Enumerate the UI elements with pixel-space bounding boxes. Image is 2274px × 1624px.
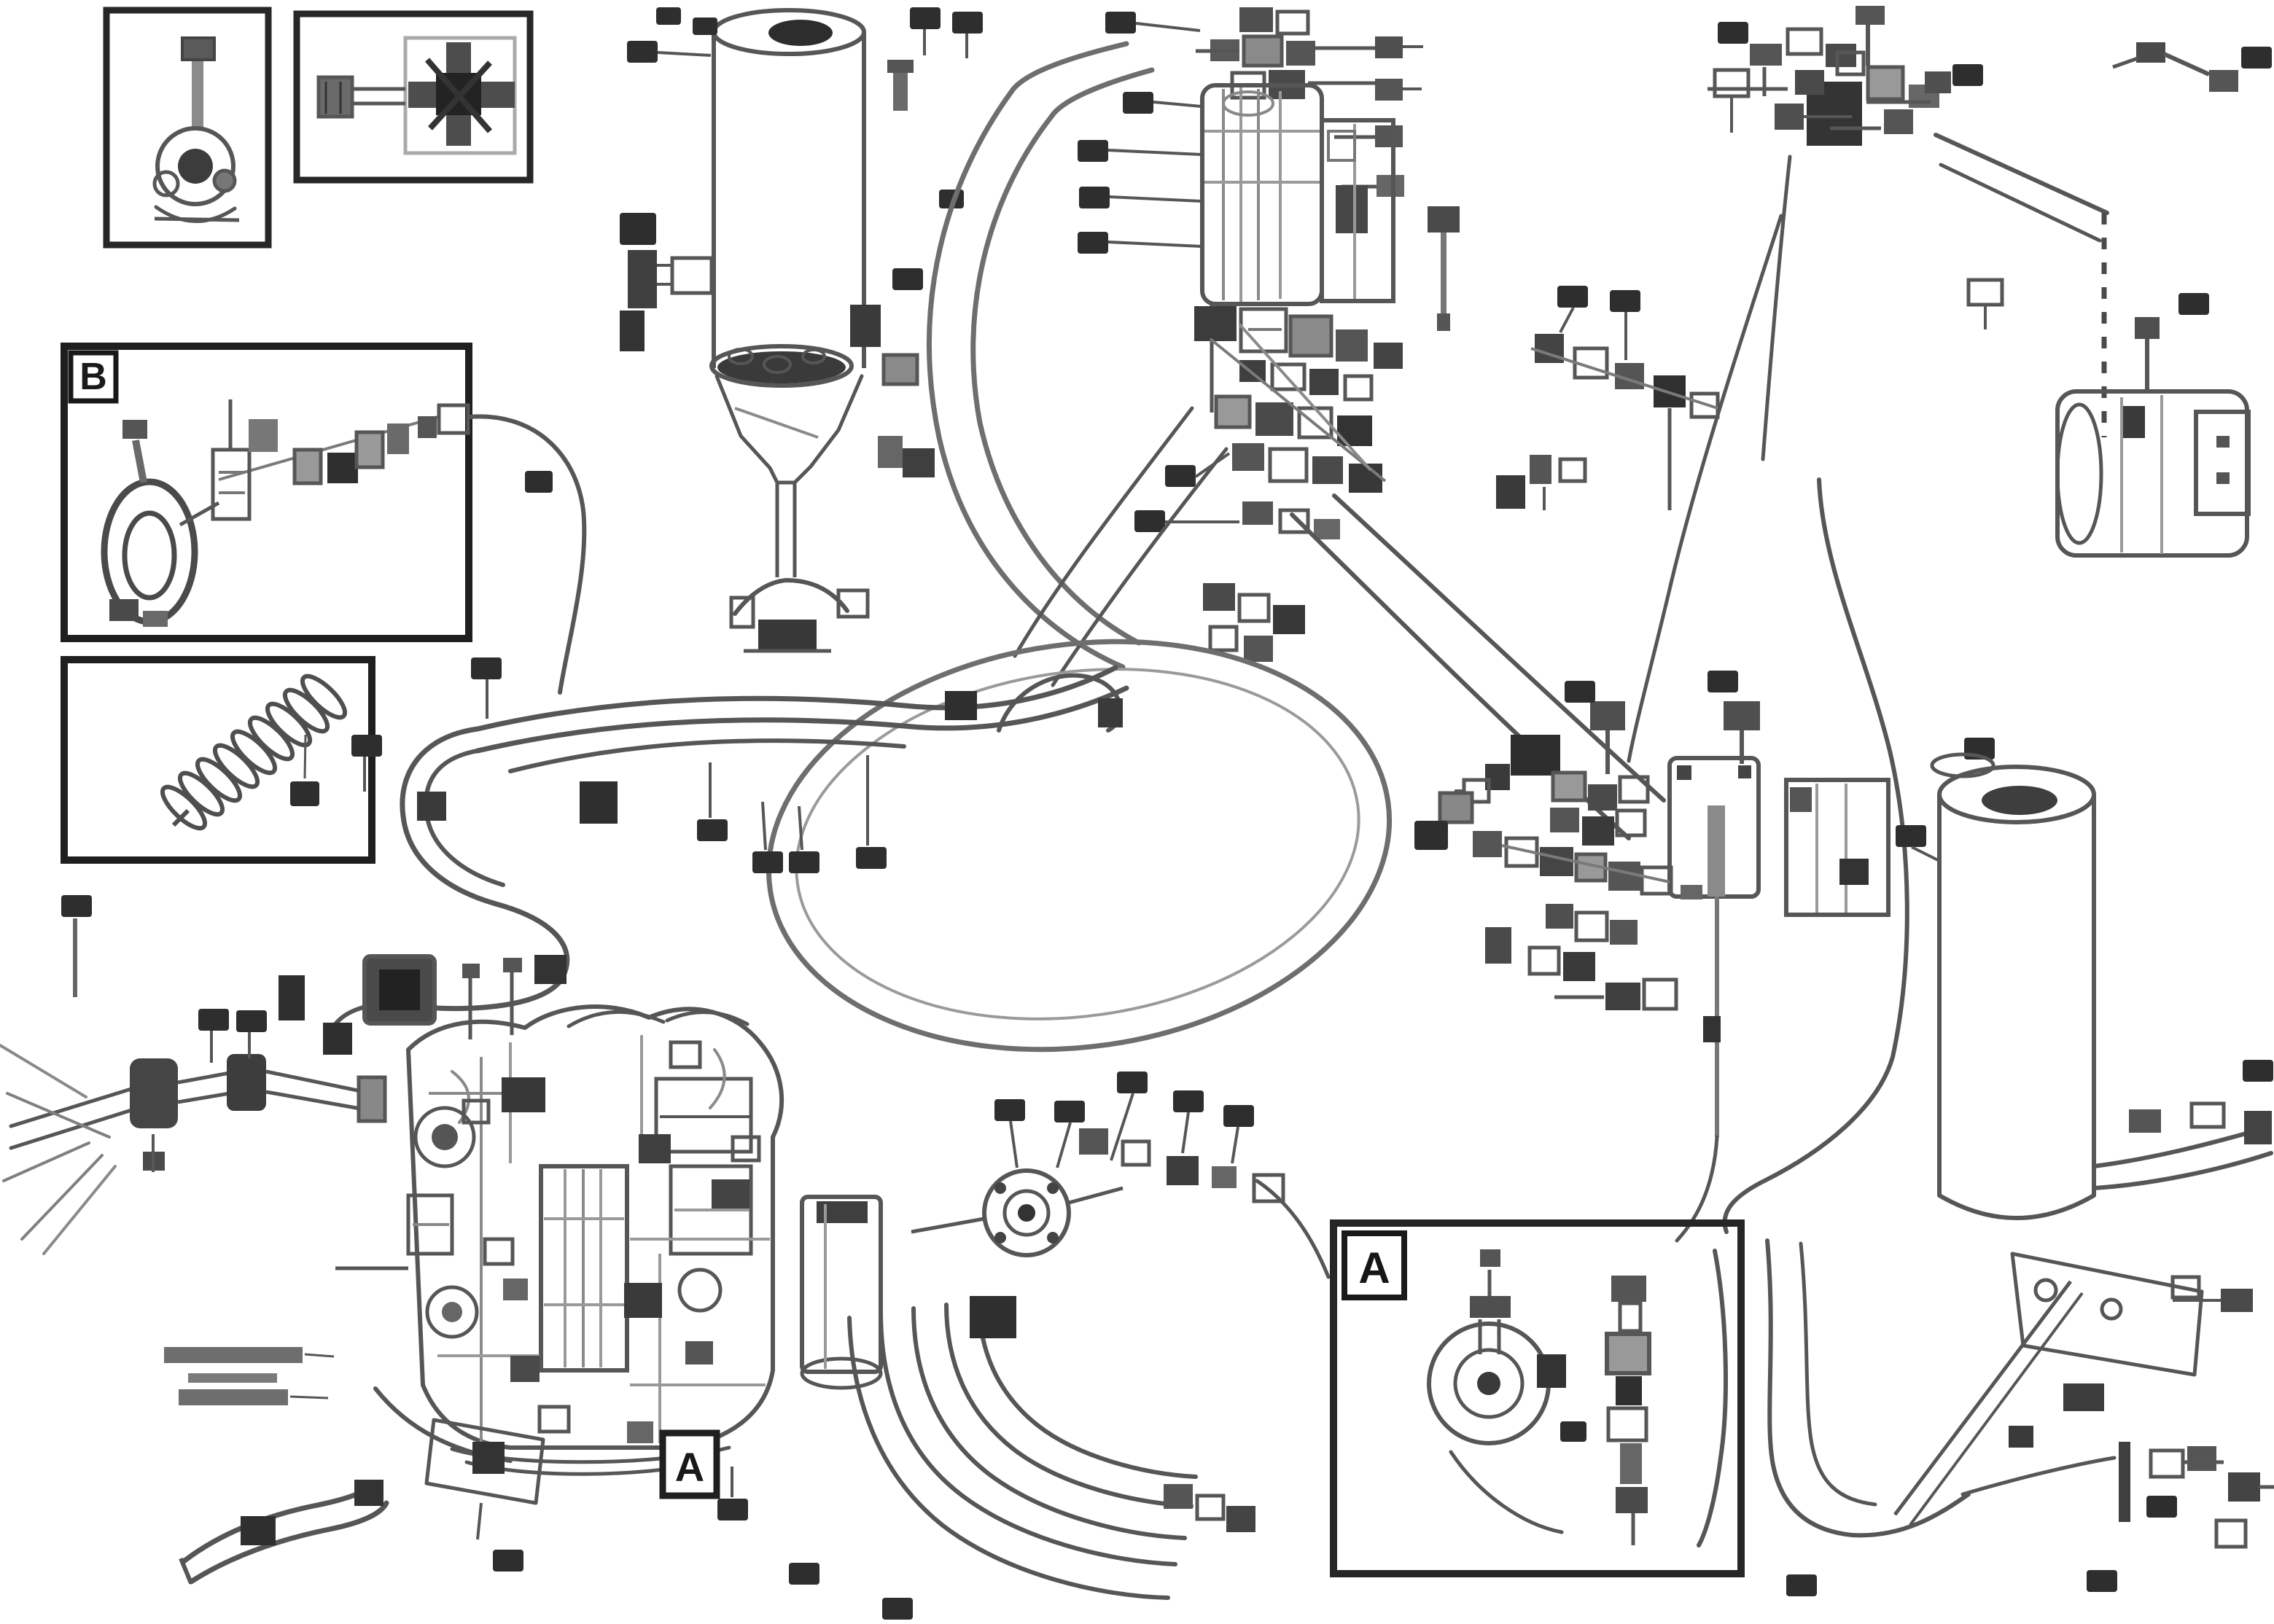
fitting on cylinder left xyxy=(655,258,712,293)
filter hose fitting 1 xyxy=(2129,1109,2161,1133)
valve bolt row 3 xyxy=(1334,125,1403,147)
block dark boss 3 xyxy=(712,1179,749,1209)
mid-right bolt 2 xyxy=(1724,701,1760,764)
bolt right of funnel 2 xyxy=(878,436,903,468)
accumulator funnel xyxy=(717,349,862,483)
valve vertical line xyxy=(1210,304,1214,413)
bottom center fittings xyxy=(1164,1484,1255,1532)
mid-right label 1 xyxy=(1414,821,1448,850)
valve mid fitting c xyxy=(1290,316,1331,356)
filter label top xyxy=(1964,738,1995,760)
inset box 2 frame xyxy=(297,14,530,180)
fitting chain right of valve xyxy=(1531,334,1718,417)
gauge line fitting 3 xyxy=(295,450,321,483)
top-right small part xyxy=(1715,70,1748,133)
axle guide line 2 xyxy=(4,1143,89,1181)
block top hump 2 xyxy=(667,1012,747,1024)
long hose down right side xyxy=(1725,480,1907,1232)
spring label xyxy=(290,735,319,806)
valve label 1 xyxy=(1105,12,1200,34)
oval chain fitting 3 xyxy=(1167,1156,1199,1185)
gauge line fitting 1 xyxy=(213,450,249,519)
accumulator label 4 xyxy=(887,359,917,380)
inset box B frame xyxy=(64,346,469,639)
chain drop line xyxy=(1668,408,1672,510)
filter cylinder xyxy=(1939,767,2094,1218)
valve label 5 xyxy=(1078,232,1202,254)
bleed bolt top right xyxy=(887,60,914,111)
connector label xyxy=(2178,293,2209,315)
block bolt 2 xyxy=(503,958,522,1035)
bracket small part xyxy=(1969,280,2002,329)
block feed line xyxy=(335,1267,408,1270)
accumulator label 2 xyxy=(620,213,656,245)
valve mid fitting g xyxy=(1272,364,1304,389)
dark vessel on block xyxy=(365,956,435,1023)
block bottom skirt xyxy=(452,1448,729,1474)
box A gauge circle xyxy=(1429,1324,1549,1443)
mid-right fitting row xyxy=(1550,773,1648,846)
valve label 6 xyxy=(1165,453,1229,487)
mid-right drop hose xyxy=(1677,897,1721,1241)
pump label 1 xyxy=(994,1099,1025,1168)
bracket plate left edge xyxy=(1763,157,1790,459)
axle guide line 5 xyxy=(44,1166,115,1254)
dark post label xyxy=(279,975,305,1020)
axle shaft right xyxy=(266,1071,365,1109)
bundle S-curve down xyxy=(330,904,567,1035)
gauge fitting link line xyxy=(180,399,437,525)
bundle clamp bottom xyxy=(970,1296,1016,1338)
far-right bolt pair xyxy=(2113,42,2238,92)
spring inset box frame xyxy=(64,660,372,860)
top-right label 2 xyxy=(1952,64,1983,86)
mid-right label 2 xyxy=(1565,681,1595,703)
hose filter to bottom left 2 xyxy=(1801,1244,1875,1504)
hook hose end xyxy=(999,676,1123,730)
valve block main xyxy=(1202,85,1322,304)
valve mid fitting m xyxy=(1337,415,1372,446)
valve lower fitting 2 xyxy=(1280,510,1308,532)
box A chain fitting 4 xyxy=(1616,1376,1642,1405)
box A gauge stem xyxy=(1470,1249,1511,1354)
bundle dark fitting xyxy=(945,691,977,720)
valve mid fitting l xyxy=(1299,408,1331,437)
cross fitting link xyxy=(352,89,405,104)
bottom hose arc 3 xyxy=(946,1305,1191,1506)
axle end flange xyxy=(359,1077,385,1121)
mid-right lower parts xyxy=(1530,904,1638,981)
valve mid link 1 xyxy=(1210,339,1385,481)
hose valve to center left 1 xyxy=(1015,408,1192,656)
text arrow 2 xyxy=(290,1397,328,1398)
reference box A small xyxy=(663,1433,717,1496)
valve mid fitting e xyxy=(1374,343,1403,369)
svg-text:A: A xyxy=(675,1444,704,1490)
box A chain fitting 2 xyxy=(1620,1303,1640,1331)
filter hose label xyxy=(2243,1060,2273,1082)
valve label 2 xyxy=(1123,92,1202,114)
block dark boss 5 xyxy=(510,1356,540,1382)
box A side hose xyxy=(1699,1251,1726,1545)
oval chain fitting 4 xyxy=(1212,1166,1237,1188)
center hose loop outer xyxy=(742,603,1416,1088)
block inner lines xyxy=(429,1035,770,1443)
valve bolt row 4 xyxy=(1342,175,1404,197)
bundle clamp 1 xyxy=(580,781,618,824)
mid-right fitting 1 xyxy=(1440,793,1472,822)
oval chain fitting 2 xyxy=(1123,1141,1149,1165)
pipe clamp 2 xyxy=(354,1480,383,1506)
bottom label 2 xyxy=(882,1598,913,1620)
gauge line fitting 2 xyxy=(249,419,278,452)
pedal stem xyxy=(478,1503,481,1539)
bottom label 1 xyxy=(789,1563,819,1585)
gauge line end fitting xyxy=(439,405,468,433)
main hose arc inner xyxy=(973,70,1152,643)
L-bolt left of cylinder xyxy=(628,250,657,308)
text arrow 1 xyxy=(305,1354,334,1356)
mid-right lower bolt xyxy=(1485,927,1511,964)
top-right fitting cluster xyxy=(1708,29,1939,146)
central valve block outline xyxy=(408,1007,782,1448)
block dark boss 1 xyxy=(502,1077,545,1112)
text line 3 xyxy=(179,1389,288,1405)
tiny labels above cylinder xyxy=(656,7,717,35)
box A chain fitting 5 xyxy=(1608,1408,1646,1440)
box A dark port xyxy=(1537,1354,1566,1388)
oval chain fitting 5 xyxy=(1254,1175,1283,1201)
hose valve to mid-right 2 xyxy=(1292,515,1629,838)
hose top-right to mid-right xyxy=(1629,216,1781,761)
block dark boss 4 xyxy=(624,1283,662,1318)
bottom hose arc 1 xyxy=(881,1312,1175,1564)
bundle U-turn xyxy=(402,729,503,904)
pressure gauge xyxy=(104,420,195,627)
oval chain label 1 xyxy=(1173,1090,1204,1153)
valve mid fitting j xyxy=(1216,397,1250,427)
text till hydrauloljetank line 1 xyxy=(164,1347,303,1363)
box A chain fitting 6 xyxy=(1620,1443,1642,1484)
axle guide line 3 xyxy=(22,1155,102,1239)
top-right knot extras xyxy=(1795,52,1951,134)
mid-right dark elbow 2 xyxy=(1485,764,1510,790)
filter bracket below xyxy=(2012,1254,2202,1411)
box A inner label xyxy=(1560,1421,1586,1442)
pump flange xyxy=(984,1171,1069,1255)
mid-right valve body xyxy=(1670,758,1759,899)
filter hoses right xyxy=(2094,1127,2271,1188)
block right plate xyxy=(656,1079,751,1152)
text line 2 xyxy=(188,1373,277,1383)
bottom hose arc 2 xyxy=(914,1308,1185,1538)
control lever knob nut xyxy=(182,38,214,60)
bundle label 5 xyxy=(789,806,819,873)
gauge line nut xyxy=(418,416,437,438)
axle label 2 xyxy=(236,1010,267,1058)
mid-right dark elbow xyxy=(1511,735,1560,776)
pedal label xyxy=(493,1550,523,1572)
main hose arc outer xyxy=(930,44,1126,667)
hose chain to box A xyxy=(1257,1181,1328,1277)
coil spring xyxy=(157,671,351,835)
block left lower boss xyxy=(427,1287,477,1337)
valve bolt row 2 xyxy=(1375,79,1422,101)
nut right of funnel xyxy=(903,448,935,477)
box A chain fitting 7 xyxy=(1616,1487,1648,1513)
valve lower fitting 1 xyxy=(1242,501,1273,525)
gauge line fitting 4 xyxy=(357,432,383,467)
hose bundle low xyxy=(510,741,904,771)
valve lower fitting 3 xyxy=(1314,519,1340,539)
block top hump 1 xyxy=(569,1012,663,1026)
valve mid fitting q xyxy=(1349,464,1382,493)
accumulator label 3 xyxy=(892,268,923,290)
bottom-right label 3 xyxy=(2146,1496,2177,1518)
cross fitting small part xyxy=(319,77,352,117)
accumulator drain tube xyxy=(777,483,795,577)
block left port xyxy=(408,1195,452,1254)
bottom hose arc 4 xyxy=(979,1302,1196,1477)
bundle label 3 xyxy=(697,762,728,841)
block right sub xyxy=(671,1166,751,1311)
bottom-right label 2 xyxy=(2087,1570,2117,1592)
valve bottom fittings xyxy=(1203,583,1305,662)
mid-right mid parts xyxy=(1502,838,1671,894)
pedal arm xyxy=(375,1389,510,1461)
bottom-right label 1 xyxy=(1786,1574,1817,1596)
bracket dashed hanger xyxy=(2102,213,2107,437)
bundle label 4 xyxy=(752,802,783,873)
pipe clamp 1 xyxy=(241,1516,276,1545)
axle nut xyxy=(143,1134,165,1172)
hose filter to bottom left xyxy=(1767,1241,1969,1535)
oval chain fitting 1 xyxy=(1079,1128,1108,1155)
valve mid fitting k xyxy=(1255,402,1293,436)
pedal dark pad xyxy=(472,1442,505,1474)
svg-text:A: A xyxy=(1358,1244,1390,1292)
filter hose fitting 2 xyxy=(2192,1104,2224,1127)
valve mid link 2 xyxy=(1239,324,1371,470)
mid-right fitting 2 xyxy=(1473,831,1502,857)
control lever ball joint xyxy=(155,128,239,222)
valve label 3 xyxy=(1078,140,1202,162)
axle shaft left xyxy=(11,1079,166,1148)
cross fitting xyxy=(408,42,515,146)
block left boss xyxy=(416,1108,474,1166)
bundle clamp 3 xyxy=(534,955,566,984)
filter hose fitting 3 xyxy=(2244,1111,2272,1144)
bundle clamp 4 xyxy=(323,1023,352,1055)
chain label 1 xyxy=(1557,286,1588,332)
valve label 7 xyxy=(1134,510,1239,532)
inset box 1 frame xyxy=(106,10,268,245)
valve mid fitting p xyxy=(1312,456,1343,484)
pump label 3 xyxy=(1111,1071,1148,1160)
box A chain stem xyxy=(1632,1513,1635,1545)
mid-right block xyxy=(1786,780,1888,915)
bottom cylinder part xyxy=(802,1197,881,1388)
arc label xyxy=(939,190,964,208)
bundle label 2 xyxy=(351,735,382,792)
block small parts xyxy=(464,1042,759,1443)
filter left label xyxy=(1896,825,1938,860)
hose bundle top xyxy=(478,668,1115,729)
oval chain label 2 xyxy=(1223,1105,1254,1163)
axle guide line 4 xyxy=(0,1045,86,1097)
mid-right elbow tail xyxy=(1455,780,1489,802)
filter top small ellipse xyxy=(1932,754,1993,776)
inset box B label xyxy=(71,353,116,401)
valve mid fitting o xyxy=(1270,449,1307,481)
accumulator label 1 xyxy=(627,41,711,63)
axle guide line 1 xyxy=(7,1093,109,1137)
gauge line elbow xyxy=(327,453,358,483)
pump line left xyxy=(911,1219,984,1232)
connector box xyxy=(2057,391,2248,555)
valve bolt row 1 xyxy=(1375,36,1423,58)
box A bottom hose xyxy=(1451,1452,1562,1532)
box A chain fitting 1 xyxy=(1611,1276,1646,1302)
bundle clamp 2 xyxy=(417,792,446,821)
valve label 4 xyxy=(1079,187,1202,208)
long bolt with stem xyxy=(1428,206,1460,331)
valve mid fitting i xyxy=(1345,376,1371,399)
small fittings below chain xyxy=(1496,455,1585,510)
valve mid fitting d xyxy=(1336,329,1368,362)
bottom label 3 xyxy=(717,1467,748,1520)
connector bolt above xyxy=(2135,317,2160,390)
dark fitting left xyxy=(620,311,645,351)
hose valve to center left 2 xyxy=(1053,449,1226,685)
valve block side xyxy=(1322,120,1393,301)
top-right label 1 xyxy=(1718,22,1748,44)
svg-text:B: B xyxy=(79,356,107,398)
funnel foot cluster xyxy=(731,580,868,652)
connector dots xyxy=(2216,436,2230,484)
connector dark port xyxy=(2123,406,2145,438)
top-right bolt top xyxy=(1856,6,1885,66)
chain label 2 xyxy=(1610,290,1640,360)
bottom hose arc 5 xyxy=(849,1318,1168,1598)
bracket fittings right xyxy=(2009,1277,2253,1448)
axle boot 1 xyxy=(130,1058,178,1128)
bolt right of funnel 1 xyxy=(884,355,917,384)
hose from box B to main bundle xyxy=(469,416,584,692)
accumulator cylinder xyxy=(712,10,864,386)
mid-right lower fitting 1 xyxy=(1554,983,1640,1010)
axle label 1 xyxy=(198,1009,229,1063)
valve mid fitting n xyxy=(1232,443,1264,471)
axle boot 2 xyxy=(227,1054,266,1111)
gauge line fitting 5 xyxy=(387,423,409,454)
axle bolt with label xyxy=(61,895,92,997)
bundle label 1 xyxy=(471,657,502,719)
elbow right of cylinder xyxy=(850,305,881,347)
valve mid fitting b xyxy=(1241,309,1286,351)
block bolt 1 xyxy=(462,964,480,1039)
pump line right xyxy=(1069,1188,1123,1203)
cross fitting outline xyxy=(405,38,515,153)
valve mid fitting f xyxy=(1239,360,1266,382)
axle shaft mid xyxy=(178,1073,230,1102)
mid-right bolt 1 xyxy=(1590,701,1625,774)
block spool housing xyxy=(541,1166,627,1370)
far-right label xyxy=(2241,47,2272,69)
bracket diagonal strut xyxy=(1895,1281,2082,1525)
bracket plate slant xyxy=(1936,135,2107,241)
hose B label xyxy=(525,471,553,493)
bundle label 6 xyxy=(856,755,887,869)
box A chain fitting 3 xyxy=(1607,1334,1649,1373)
mid-right label 3 xyxy=(1708,671,1738,692)
control lever stem xyxy=(192,61,203,127)
bottom right assembly xyxy=(1963,1442,2274,1547)
valve mid fitting a xyxy=(1194,306,1237,341)
hose bundle mid xyxy=(478,688,1126,751)
hose valve to mid-right 1 xyxy=(1334,496,1664,800)
curved pipe xyxy=(181,1484,386,1583)
mid-right lower fitting 2 xyxy=(1644,980,1676,1009)
valve cluster top fittings xyxy=(1196,7,1375,99)
top label pair xyxy=(910,7,983,58)
center hose loop inner xyxy=(774,634,1382,1053)
pump label 2 xyxy=(1054,1101,1085,1168)
inset box A label xyxy=(1344,1233,1404,1297)
pedal bracket xyxy=(427,1420,543,1503)
valve mid fitting h xyxy=(1309,369,1339,395)
inset box A frame xyxy=(1333,1223,1741,1574)
block dark boss 2 xyxy=(639,1134,671,1163)
